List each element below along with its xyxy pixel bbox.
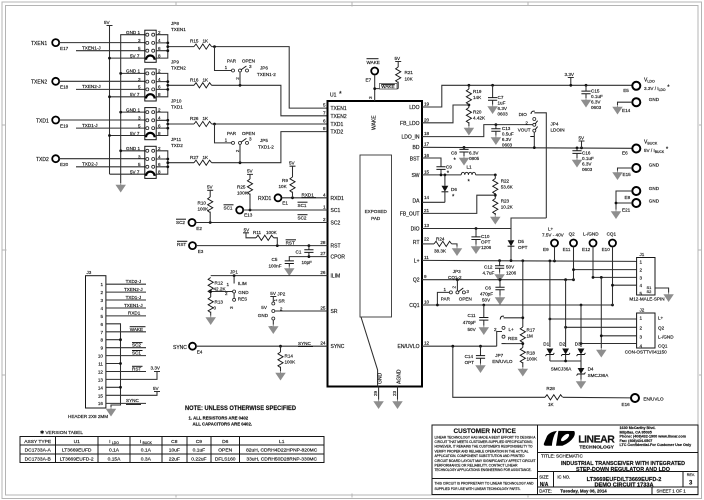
terminal E15 GND — [618, 163, 660, 177]
wire J3 pin13 3.3V supply — [106, 366, 161, 380]
svg-text:SW: SW — [411, 173, 419, 179]
svg-text:2: 2 — [323, 217, 326, 222]
U1 top pin WAKE 3 — [368, 96, 378, 130]
svg-text:1K: 1K — [548, 402, 555, 407]
svg-text:TXD2-J: TXD2-J — [126, 279, 142, 284]
svg-text:12: 12 — [424, 341, 430, 346]
svg-text:1: 1 — [100, 282, 103, 287]
svg-text:RXD1: RXD1 — [302, 193, 315, 198]
svg-text:C14: C14 — [465, 354, 474, 359]
svg-text:DC1733A-A: DC1733A-A — [25, 448, 52, 454]
svg-text:470pF: 470pF — [480, 292, 493, 297]
capacitor C9 — [436, 165, 452, 178]
wire J3 pin4 TXEN1-J — [106, 303, 146, 308]
5V supply for R9 — [289, 161, 296, 178]
svg-text:L-/GND: L-/GND — [583, 232, 599, 237]
svg-text:CQ1-2: CQ1-2 — [448, 275, 462, 280]
svg-text:E19: E19 — [60, 123, 69, 128]
svg-text:1: 1 — [640, 316, 643, 321]
svg-text:14: 14 — [424, 195, 430, 200]
5V supply for R10 — [207, 185, 214, 197]
svg-text:E14: E14 — [622, 108, 631, 113]
terminal E4 SYNC — [173, 343, 203, 355]
terminal E8 GND — [616, 186, 660, 203]
svg-text:5V 7: 5V 7 — [130, 131, 140, 136]
svg-text:D6: D6 — [222, 439, 229, 445]
svg-text:GND: GND — [649, 163, 660, 168]
svg-text:INDUSTRIAL TRANSCEIVER WITH IN: INDUSTRIAL TRANSCEIVER WITH INTEGRATED — [561, 461, 685, 467]
svg-text:ALL CAPACITORS ARE 0402.: ALL CAPACITORS ARE 0402. — [193, 422, 253, 427]
svg-text:DATE:: DATE: — [539, 489, 552, 494]
terminal E3 RST — [177, 241, 204, 254]
svg-text:DIO: DIO — [519, 112, 528, 117]
svg-text:D4: D4 — [588, 367, 594, 372]
svg-text:100K: 100K — [285, 360, 297, 365]
wire DA pin to D6 — [422, 201, 445, 203]
svg-text:18: 18 — [424, 131, 430, 136]
terminal E21 GND — [616, 198, 660, 212]
svg-text:5V: 5V — [244, 227, 251, 232]
svg-text:1uF: 1uF — [498, 101, 506, 106]
svg-text:25: 25 — [320, 306, 326, 311]
svg-text:5V: 5V — [104, 20, 111, 25]
wire SC2 net to U1 pin2 — [196, 222, 328, 224]
svg-text:0.22uF: 0.22uF — [191, 456, 206, 462]
svg-text:SC2: SC2 — [132, 343, 141, 348]
svg-text:PAD: PAD — [371, 216, 381, 221]
ground arrow J3 — [107, 407, 116, 416]
diode D4 SMCJ36A — [577, 367, 610, 380]
resistor R15 5K — [190, 39, 212, 50]
header JP10 TXD1 — [126, 98, 183, 139]
svg-text:JP2: JP2 — [277, 292, 285, 297]
ground arrow E15 — [613, 171, 622, 180]
terminal E20 TXD2 — [36, 155, 69, 167]
5V supply for R11 — [243, 227, 256, 238]
svg-text:PAR: PAR — [227, 131, 237, 136]
wire J3 pin10 SC1 — [106, 350, 146, 355]
svg-text:U1: U1 — [74, 439, 81, 445]
ground arrow C12 — [495, 273, 504, 282]
junction J1 pin2 — [572, 268, 575, 271]
svg-text:9: 9 — [424, 274, 427, 279]
svg-text:2: 2 — [451, 286, 456, 289]
svg-text:Q2: Q2 — [413, 278, 420, 284]
svg-text:6: 6 — [100, 322, 103, 327]
svg-text:8: 8 — [323, 126, 326, 131]
terminal E1 RXD1 — [258, 194, 288, 205]
svg-text:23: 23 — [392, 390, 397, 396]
svg-text:33uH, CDRH50D28RNP-330MC: 33uH, CDRH50D28RNP-330MC — [246, 456, 317, 462]
svg-text:GND 1: GND 1 — [126, 146, 140, 151]
svg-text:C8: C8 — [451, 151, 457, 156]
wire Q2 net — [422, 279, 574, 281]
svg-text:GND: GND — [258, 313, 269, 318]
svg-text:I BUCK: I BUCK — [140, 439, 153, 445]
svg-text:R27: R27 — [190, 155, 199, 160]
terminal E6 VBUCK — [622, 140, 669, 156]
svg-text:C6: C6 — [485, 286, 491, 291]
svg-text:C9: C9 — [446, 165, 452, 170]
svg-text:100K: 100K — [527, 357, 539, 362]
junction R22 R23 — [494, 194, 497, 197]
wire J2 pin2 from Q2 column — [566, 326, 637, 328]
svg-text:E4: E4 — [197, 350, 203, 355]
svg-text:TITLE: SCHEMATIC: TITLE: SCHEMATIC — [541, 454, 583, 459]
wire WAKE net — [375, 75, 399, 101]
logo LT Linear Technology — [544, 431, 615, 450]
svg-text:C15: C15 — [591, 89, 600, 94]
U1 right pin names — [398, 105, 421, 350]
ground arrow U1 GND pin — [374, 400, 383, 409]
svg-text:9: 9 — [100, 346, 103, 351]
svg-text:3: 3 — [689, 481, 693, 487]
svg-text:22: 22 — [424, 237, 430, 242]
svg-text:JP6: JP6 — [260, 66, 268, 71]
junction J2 pin2 — [564, 326, 567, 329]
svg-text:3: 3 — [229, 306, 234, 309]
wire SYNC net to U1 pin24 — [196, 345, 328, 347]
svg-text:TXD1: TXD1 — [331, 122, 344, 128]
svg-text:0.5uF: 0.5uF — [502, 132, 514, 137]
wire J3 pin9 SC2 — [106, 343, 146, 348]
svg-text:5V: 5V — [270, 291, 277, 296]
svg-text:BD: BD — [413, 145, 420, 151]
capacitor C11 470pF — [463, 305, 489, 332]
jumper JP7 EN/UVLO — [492, 316, 523, 364]
svg-text:HOWEVER, IT REMAINS THE CUSTOM: HOWEVER, IT REMAINS THE CUSTOMER'S RESPO… — [435, 445, 533, 449]
svg-text:GND: GND — [649, 97, 660, 102]
svg-text:E16: E16 — [622, 402, 631, 407]
terminal E5 VLDO — [623, 78, 670, 94]
svg-text:3: 3 — [138, 116, 141, 121]
junction JP11 output dots — [166, 158, 169, 169]
capacitor C1 10pF — [296, 246, 314, 265]
svg-text:PERFORMANCE OR RELIABILITY. C: PERFORMANCE OR RELIABILITY. CONTACT LINE… — [435, 464, 518, 468]
junction GND chain dots — [119, 72, 122, 152]
svg-text:SC2: SC2 — [176, 220, 185, 225]
svg-text:16: 16 — [424, 153, 430, 158]
svg-text:SC2: SC2 — [331, 221, 341, 227]
svg-text:C13: C13 — [502, 126, 511, 131]
wire TVS anode bus — [550, 361, 581, 368]
svg-text:E21: E21 — [622, 208, 631, 213]
jumper JP5 TXD1-2 — [215, 124, 275, 163]
svg-text:THIS CIRCUIT IS PROPRIETARY TO: THIS CIRCUIT IS PROPRIETARY TO LINEAR TE… — [435, 482, 534, 486]
svg-text:*: * — [339, 91, 342, 98]
wire J1 pin4 from E10 — [613, 284, 637, 286]
svg-text:E12: E12 — [582, 247, 591, 252]
resistor R24 38.3K — [422, 237, 457, 254]
svg-text:CQ1: CQ1 — [607, 232, 617, 237]
wire J2 pin4 from CQ1 column — [581, 343, 637, 345]
wire EN/UVLO net — [422, 345, 497, 347]
svg-text:WAKE: WAKE — [367, 60, 380, 65]
wire LDO 3.3V rail — [422, 85, 632, 107]
junction TXD2 JP5 tap — [239, 161, 242, 164]
svg-text:5V / IBUCK *: 5V / IBUCK * — [644, 147, 669, 154]
svg-text:RST: RST — [132, 366, 141, 371]
svg-text:JP9: JP9 — [171, 60, 179, 65]
svg-text:7.5V - 40V: 7.5V - 40V — [542, 233, 565, 238]
svg-text:4: 4 — [323, 193, 326, 198]
net label TXEN1-J stub — [76, 46, 145, 51]
svg-text:E20: E20 — [60, 162, 69, 167]
5V supply for R25 — [247, 169, 254, 179]
svg-text:TXEN1: TXEN1 — [331, 106, 347, 112]
svg-text:STEP-DOWN REGULATOR AND LDO: STEP-DOWN REGULATOR AND LDO — [576, 467, 670, 473]
net label TXD1-J stub — [76, 123, 145, 128]
svg-text:R19: R19 — [473, 89, 482, 94]
header JP9 TXEN2 — [126, 60, 186, 101]
svg-text:SIZE: SIZE — [539, 475, 549, 480]
svg-text:7: 7 — [323, 110, 326, 115]
wire J2 pin3 from L-/GND column — [601, 335, 636, 337]
svg-text:L+: L+ — [509, 327, 515, 332]
svg-text:5: 5 — [138, 85, 141, 90]
svg-text:M12-MALE-SPIN: M12-MALE-SPIN — [629, 297, 664, 302]
svg-text:D6: D6 — [451, 187, 457, 192]
terminal E12 L-/GND — [582, 232, 599, 253]
svg-text:SHEET 1 OF 1: SHEET 1 OF 1 — [657, 489, 687, 494]
wire J3 GND bus pins 6 8 11 14 — [106, 324, 121, 407]
svg-text:2: 2 — [100, 290, 103, 295]
svg-text:VOUT: VOUT — [518, 128, 531, 133]
terminal E16 EN/UVLO — [622, 394, 664, 407]
svg-text:16: 16 — [98, 401, 104, 406]
svg-text:L1: L1 — [467, 165, 473, 170]
svg-text:26: 26 — [320, 270, 326, 275]
svg-text:NOTE: UNLESS OTHERWISE SPECIFI: NOTE: UNLESS OTHERWISE SPECIFIED — [185, 405, 296, 412]
capacitor C6 470pF — [480, 280, 505, 303]
svg-text:GND: GND — [378, 373, 384, 385]
ground arrow C6 — [496, 296, 505, 305]
junction JP8 output dots — [166, 42, 169, 53]
svg-text:8: 8 — [100, 338, 103, 343]
title block frame — [432, 425, 698, 495]
diode D3 SMCJ36A — [575, 342, 586, 362]
svg-text:L+: L+ — [548, 227, 554, 232]
svg-text:DC1733A-B: DC1733A-B — [25, 456, 51, 462]
wire CPOR to C5 — [289, 257, 327, 261]
svg-text:SYNC: SYNC — [126, 398, 139, 403]
svg-text:TXD2: TXD2 — [171, 143, 183, 148]
svg-text:E13: E13 — [244, 212, 253, 217]
svg-text:TXD2: TXD2 — [36, 157, 49, 163]
svg-text:D3: D3 — [575, 342, 581, 347]
ground arrow C8 — [460, 156, 469, 165]
svg-text:EN/UVLO: EN/UVLO — [492, 359, 513, 364]
svg-text:AGND: AGND — [397, 369, 403, 384]
capacitor C7 1uF — [488, 85, 508, 116]
ground arrow C16 — [573, 158, 582, 167]
svg-text:R20: R20 — [473, 110, 482, 115]
wire RST net to U1 pin28 — [196, 245, 328, 247]
svg-text:100K: 100K — [266, 230, 278, 235]
svg-text:24: 24 — [320, 341, 326, 346]
jumper JP6 TXEN1-2 — [215, 47, 277, 86]
ground arrow L-/GND — [597, 348, 606, 357]
terminal E17 TXEN1 — [31, 39, 69, 51]
resistor R16 5K — [190, 77, 212, 88]
svg-text:LINEAR TECHNOLOGY HAS MADE A B: LINEAR TECHNOLOGY HAS MADE A BEST EFFORT… — [435, 435, 537, 439]
net label SC2 — [298, 215, 308, 221]
svg-text:E11: E11 — [563, 247, 571, 252]
svg-text:RST: RST — [177, 242, 186, 247]
terminal E2 SC2 — [176, 219, 202, 231]
svg-text:TXEN2: TXEN2 — [171, 66, 186, 71]
wire JP11 output column — [156, 151, 194, 174]
svg-text:3: 3 — [640, 335, 643, 340]
svg-text:27: 27 — [320, 251, 326, 256]
wire BD VOUT 5V rail — [422, 147, 632, 148]
svg-text:*: * — [452, 195, 455, 201]
svg-text:E17: E17 — [60, 46, 69, 51]
svg-text:6: 6 — [323, 119, 326, 124]
svg-text:50V: 50V — [468, 327, 477, 332]
svg-text:1: 1 — [640, 260, 643, 265]
svg-text:50V: 50V — [482, 298, 491, 303]
junction J1 pin4 — [611, 284, 614, 287]
svg-text:19: 19 — [424, 102, 430, 107]
svg-text:TXD2: TXD2 — [331, 130, 344, 136]
svg-text:TXD2-J: TXD2-J — [82, 162, 98, 167]
junction L+ rail dots — [498, 259, 556, 262]
wire JP8 output column — [156, 35, 194, 58]
svg-text:C1: C1 — [296, 250, 302, 255]
svg-text:SR: SR — [278, 298, 285, 303]
5V supply for R21 — [395, 56, 402, 67]
svg-text:1K: 1K — [203, 39, 210, 44]
svg-text:15: 15 — [98, 393, 104, 398]
junction C13 tap — [495, 123, 498, 126]
diode D5 OPT — [508, 229, 528, 261]
svg-text:0.1A: 0.1A — [141, 448, 152, 454]
svg-text:R12: R12 — [215, 281, 224, 286]
svg-text:L-/GND: L-/GND — [658, 335, 674, 340]
svg-text:ILIM: ILIM — [331, 274, 341, 280]
svg-text:LDO: LDO — [409, 105, 419, 111]
svg-text:3.3V: 3.3V — [151, 366, 161, 371]
svg-text:OPT: OPT — [481, 240, 491, 245]
wire JP9 output column — [156, 73, 194, 96]
junction JP10 output dots — [166, 119, 169, 130]
capacitor C16 0.1uF — [572, 148, 594, 172]
svg-text:R25: R25 — [237, 185, 246, 190]
capacitor C5 100nF — [269, 257, 294, 269]
terminal E7 WAKE — [366, 59, 380, 83]
wire FB_OUT tap — [422, 195, 495, 213]
wire TXEN2 net to U1 pin7 — [212, 85, 328, 116]
ground arrow C13 — [492, 136, 501, 145]
svg-text:L1: L1 — [279, 439, 285, 445]
svg-text:R11: R11 — [253, 230, 262, 235]
svg-text:SC1: SC1 — [224, 206, 233, 211]
svg-text:LTC Confidential-For Customer: LTC Confidential-For Customer Use Only — [620, 443, 693, 447]
svg-text:JP11: JP11 — [171, 137, 182, 142]
svg-text:5: 5 — [640, 291, 643, 296]
svg-text:SMCJ36A: SMCJ36A — [588, 373, 610, 378]
wire TXEN1 to JP8 — [59, 42, 144, 44]
svg-text:4: 4 — [640, 283, 643, 288]
svg-text:TXD1-J: TXD1-J — [82, 123, 98, 128]
size band text — [539, 473, 695, 489]
svg-text:R10: R10 — [198, 201, 207, 206]
svg-text:CON-OSTTV041150: CON-OSTTV041150 — [625, 349, 667, 354]
wire RXD1 net to U1 pin4 — [282, 197, 328, 199]
svg-text:TXEN1-2: TXEN1-2 — [257, 72, 276, 77]
svg-text:CIRCUIT BOARD LAYOUT MAY SIGNI: CIRCUIT BOARD LAYOUT MAY SIGNIFICANTLY A… — [435, 459, 537, 463]
svg-text:SUPPLIED FOR USE WITH LINEAR T: SUPPLIED FOR USE WITH LINEAR TECHNOLOGY … — [435, 487, 521, 491]
junction Q2 dots — [456, 278, 575, 281]
resistor R17 1M — [520, 261, 535, 348]
svg-text:TXEN1-J: TXEN1-J — [82, 46, 101, 51]
capacitor C12 4.7uF — [483, 261, 517, 276]
svg-text:R26: R26 — [190, 116, 199, 121]
svg-text:TXD1-2: TXD1-2 — [258, 144, 274, 149]
svg-text:LT3669EUFD-2: LT3669EUFD-2 — [60, 456, 94, 462]
svg-text:6.3V: 6.3V — [469, 151, 479, 156]
svg-text:R23: R23 — [501, 199, 510, 204]
resistor R19 14K — [466, 85, 482, 107]
junction 5V rail dots — [108, 57, 111, 137]
svg-text:5: 5 — [138, 162, 141, 167]
wire SW node — [422, 174, 461, 176]
svg-text:E5: E5 — [623, 88, 629, 93]
wire EN/UVLO to E16 rail — [453, 346, 631, 398]
header JP8 TXEN1 — [126, 21, 186, 62]
svg-text:SR: SR — [331, 309, 338, 315]
svg-text:L+: L+ — [658, 316, 664, 321]
terminal E9 L+ — [542, 227, 565, 253]
svg-text:5V: 5V — [247, 169, 254, 174]
ground arrow R20 — [465, 126, 474, 135]
svg-text:JP7: JP7 — [495, 353, 503, 358]
junction TVS bus — [564, 360, 567, 363]
svg-text:38.3K: 38.3K — [434, 249, 447, 254]
terminal E13 SC1 — [224, 205, 253, 218]
svg-text:82uH, CDRH4D22HPNP-820MC: 82uH, CDRH4D22HPNP-820MC — [246, 448, 318, 454]
U1 left pin numbers — [320, 103, 326, 346]
svg-text:3: 3 — [138, 77, 141, 82]
svg-text:C10: C10 — [481, 234, 490, 239]
junction J1 pin3 dots — [592, 276, 603, 279]
svg-text:HEADER 2X8 2MM: HEADER 2X8 2MM — [68, 414, 108, 419]
junction SYNC R14 tap — [279, 345, 282, 348]
svg-text:LT3669EUFD: LT3669EUFD — [62, 448, 92, 454]
svg-text:20: 20 — [424, 117, 430, 122]
junction R19 R20 FB_LDO — [468, 104, 471, 107]
wire J1 pin2 from E11 — [574, 269, 637, 271]
svg-text:S2: S2 — [647, 289, 653, 294]
title band text — [541, 454, 685, 474]
svg-text:RT: RT — [413, 240, 420, 246]
net label SYNC — [298, 341, 313, 347]
wire FB_LDO to divider — [422, 105, 469, 123]
junction R12 R13 — [209, 290, 212, 293]
svg-text:*: * — [447, 171, 450, 177]
svg-text:10: 10 — [98, 354, 104, 359]
svg-text:FB_OUT: FB_OUT — [400, 212, 420, 218]
svg-text:REV.: REV. — [687, 473, 695, 477]
svg-text:GND: GND — [649, 198, 660, 203]
svg-text:5V: 5V — [289, 161, 296, 166]
svg-text:470pF: 470pF — [463, 320, 476, 325]
svg-text:JP5: JP5 — [260, 138, 268, 143]
svg-text:GND 1: GND 1 — [126, 69, 140, 74]
svg-text:SYNC: SYNC — [331, 344, 345, 350]
svg-text:0805: 0805 — [469, 156, 480, 161]
